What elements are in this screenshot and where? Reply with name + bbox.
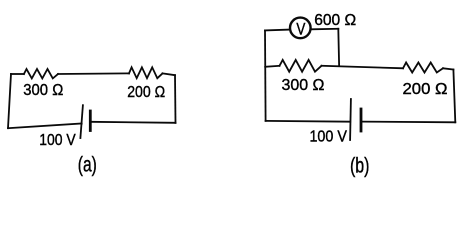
wire <box>8 74 11 128</box>
wire <box>266 120 351 123</box>
wire <box>453 70 455 123</box>
wire <box>311 28 338 31</box>
svg-text:300 Ω: 300 Ω <box>23 82 63 99</box>
svg-text:100 V: 100 V <box>309 128 347 145</box>
wire <box>8 124 82 129</box>
battery B1 100V (a) <box>89 111 92 131</box>
resistor R2 200 ohm (a) <box>129 67 163 78</box>
svg-text:300 Ω: 300 Ω <box>282 77 325 94</box>
wire <box>163 73 176 75</box>
resistor R3 300 ohm (b) <box>280 60 322 72</box>
svg-text:200 Ω: 200 Ω <box>403 81 448 98</box>
wire <box>265 29 289 32</box>
wire <box>264 30 267 121</box>
svg-text:600 Ω: 600 Ω <box>314 12 356 29</box>
wire <box>443 68 453 69</box>
svg-text:V: V <box>296 21 305 39</box>
resistor R4 200 ohm (b) <box>403 63 443 73</box>
battery B2 100V (b) <box>360 109 363 131</box>
wire <box>91 122 175 123</box>
svg-text:100 V: 100 V <box>39 132 76 149</box>
resistor R1 300 ohm (a) <box>24 69 58 78</box>
wire <box>337 29 340 65</box>
wire <box>265 66 279 67</box>
svg-text:200 Ω: 200 Ω <box>127 84 165 101</box>
wire <box>11 73 24 75</box>
wire <box>58 72 129 75</box>
svg-text:(a): (a) <box>78 154 97 177</box>
svg-text:(b): (b) <box>350 154 370 177</box>
wire <box>322 66 404 69</box>
voltmeter V1 <box>290 18 311 39</box>
wire <box>362 121 455 124</box>
wire <box>174 75 177 123</box>
